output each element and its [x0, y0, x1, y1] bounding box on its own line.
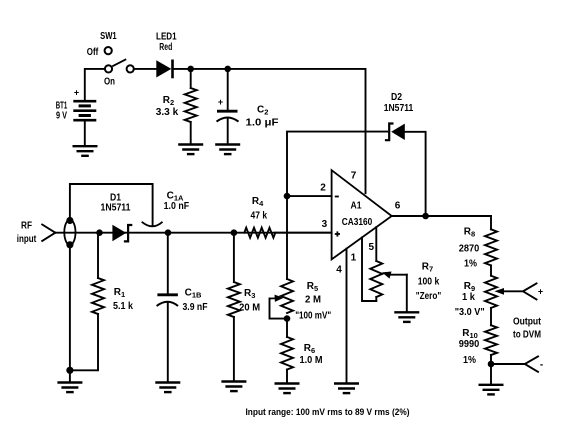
- node pin2: [284, 193, 291, 200]
- R9 wiper: [503, 290, 523, 292]
- wire loop to C1A: [70, 184, 153, 226]
- svg-text:+: +: [74, 88, 79, 98]
- node R1 top: [96, 229, 103, 236]
- svg-text:1.0 M: 1.0 M: [300, 355, 323, 366]
- svg-text:input: input: [17, 234, 37, 245]
- switch SW1: [105, 47, 134, 73]
- svg-text:47 k: 47 k: [251, 211, 268, 222]
- ground (R3): [221, 382, 246, 392]
- svg-text:20 M: 20 M: [239, 303, 260, 314]
- main signal line: [55, 232, 331, 234]
- battery BT1: [73, 69, 104, 146]
- svg-text:A1: A1: [351, 201, 362, 212]
- node R2 top: [187, 66, 194, 73]
- svg-text:6: 6: [395, 201, 401, 212]
- R7 wiper: [389, 274, 407, 276]
- svg-text:D2: D2: [391, 92, 402, 103]
- ground (battery): [73, 146, 98, 156]
- svg-text:2: 2: [320, 183, 326, 194]
- RF input arrow: [42, 225, 55, 241]
- svg-text:+: +: [218, 97, 223, 107]
- svg-text:1.0 μF: 1.0 μF: [246, 118, 279, 129]
- svg-text:SW1: SW1: [100, 31, 117, 42]
- svg-text:5.1 k: 5.1 k: [113, 301, 133, 312]
- svg-text:Input range: 100 mV rms to 89: Input range: 100 mV rms to 89 V rms (2%): [246, 407, 410, 418]
- ground (C2): [215, 145, 240, 155]
- node shield/R1: [66, 367, 73, 374]
- svg-text:CA3160: CA3160: [342, 217, 373, 228]
- node R3/R4: [231, 229, 238, 236]
- pin 3 wire: [275, 232, 331, 234]
- pin 4 wire: [346, 249, 348, 383]
- node output minus: [488, 361, 495, 368]
- svg-text:4: 4: [336, 265, 342, 276]
- ground (R6): [275, 384, 300, 394]
- svg-text:1%: 1%: [464, 259, 477, 270]
- potentiometer R5: [281, 279, 293, 313]
- svg-text:-: -: [540, 360, 543, 371]
- svg-text:2 M: 2 M: [305, 295, 321, 306]
- svg-text:3.9 nF: 3.9 nF: [183, 302, 208, 313]
- resistor R1: [97, 233, 99, 278]
- diode D1 1N5711: [112, 225, 132, 242]
- ground (pin 4): [334, 384, 359, 394]
- DVM - terminal: [525, 356, 538, 371]
- potentiometer R9: [485, 276, 497, 308]
- ground (R10): [479, 385, 504, 395]
- svg-text:RF: RF: [21, 221, 32, 232]
- svg-text:3: 3: [322, 219, 328, 230]
- wire R9-R10: [490, 308, 492, 325]
- svg-text:Output: Output: [513, 317, 542, 328]
- wire: [134, 68, 156, 70]
- wire to DVM - terminal: [491, 363, 525, 365]
- resistor R2: [190, 69, 192, 88]
- capacitor C1B: [167, 233, 169, 294]
- capacitor C2: [227, 69, 229, 110]
- pin 6 output wire: [392, 215, 491, 217]
- svg-text:3.3 k: 3.3 k: [156, 107, 179, 118]
- resistor R10: [485, 325, 497, 355]
- svg-text:9 V: 9 V: [56, 111, 67, 122]
- node output: [422, 213, 429, 220]
- resistor R4: [244, 228, 275, 238]
- svg-text:1%: 1%: [463, 355, 476, 366]
- LED LED1: [156, 60, 172, 79]
- svg-text:1: 1: [351, 253, 357, 264]
- wire top rail: [174, 69, 366, 193]
- potentiometer R7: [370, 261, 382, 297]
- svg-text:1 k: 1 k: [462, 292, 475, 303]
- resistor R8: [485, 229, 497, 265]
- svg-text:to DVM: to DVM: [513, 330, 541, 341]
- DVM + terminal: [523, 283, 537, 299]
- diode D2 1N5711: [385, 124, 405, 141]
- svg-text:9990: 9990: [459, 339, 480, 350]
- wire pin2 node down to R5: [286, 196, 288, 279]
- svg-text:LED1: LED1: [156, 32, 177, 43]
- svg-text:1N5711: 1N5711: [101, 203, 131, 214]
- resistor R6: [286, 319, 288, 337]
- svg-text:"3.0 V": "3.0 V": [455, 307, 485, 318]
- svg-text:"Zero": "Zero": [416, 291, 442, 302]
- svg-text:1.0 nF: 1.0 nF: [164, 201, 190, 212]
- svg-text:7: 7: [351, 171, 357, 182]
- svg-text:2870: 2870: [459, 244, 480, 255]
- svg-text:1N5711: 1N5711: [384, 103, 414, 114]
- node oval bottom: [66, 241, 73, 248]
- svg-text:"100 mV": "100 mV": [295, 310, 331, 321]
- ground (R7): [394, 312, 419, 322]
- svg-text:Off: Off: [87, 47, 99, 58]
- wire shield down: [70, 245, 98, 370]
- node oval top: [66, 217, 73, 224]
- pin 2 wire: [287, 195, 332, 197]
- pin 1 wire: [362, 237, 376, 301]
- wire output corner down: [490, 216, 492, 229]
- op-amp A1 CA3160: [332, 170, 392, 259]
- svg-text:+: +: [538, 287, 543, 297]
- node C1B top: [165, 229, 172, 236]
- svg-text:Red: Red: [159, 42, 172, 53]
- resistor R3: [233, 233, 235, 282]
- svg-text:On: On: [104, 77, 115, 88]
- coax connector oval: [64, 220, 75, 245]
- svg-text:100 k: 100 k: [418, 277, 440, 288]
- ground (R2): [178, 145, 203, 155]
- svg-text:5: 5: [369, 242, 375, 253]
- capacitor C1A arc: [142, 222, 163, 227]
- ground (C1B): [155, 383, 180, 393]
- R5 wiper: [270, 299, 288, 319]
- wire D2 to output node: [405, 132, 426, 216]
- node R5/R6: [284, 315, 291, 322]
- node C2 top: [224, 66, 231, 73]
- ground (shield): [57, 383, 82, 393]
- wire feedback loop: [287, 132, 387, 197]
- pin 5 wire: [375, 227, 377, 261]
